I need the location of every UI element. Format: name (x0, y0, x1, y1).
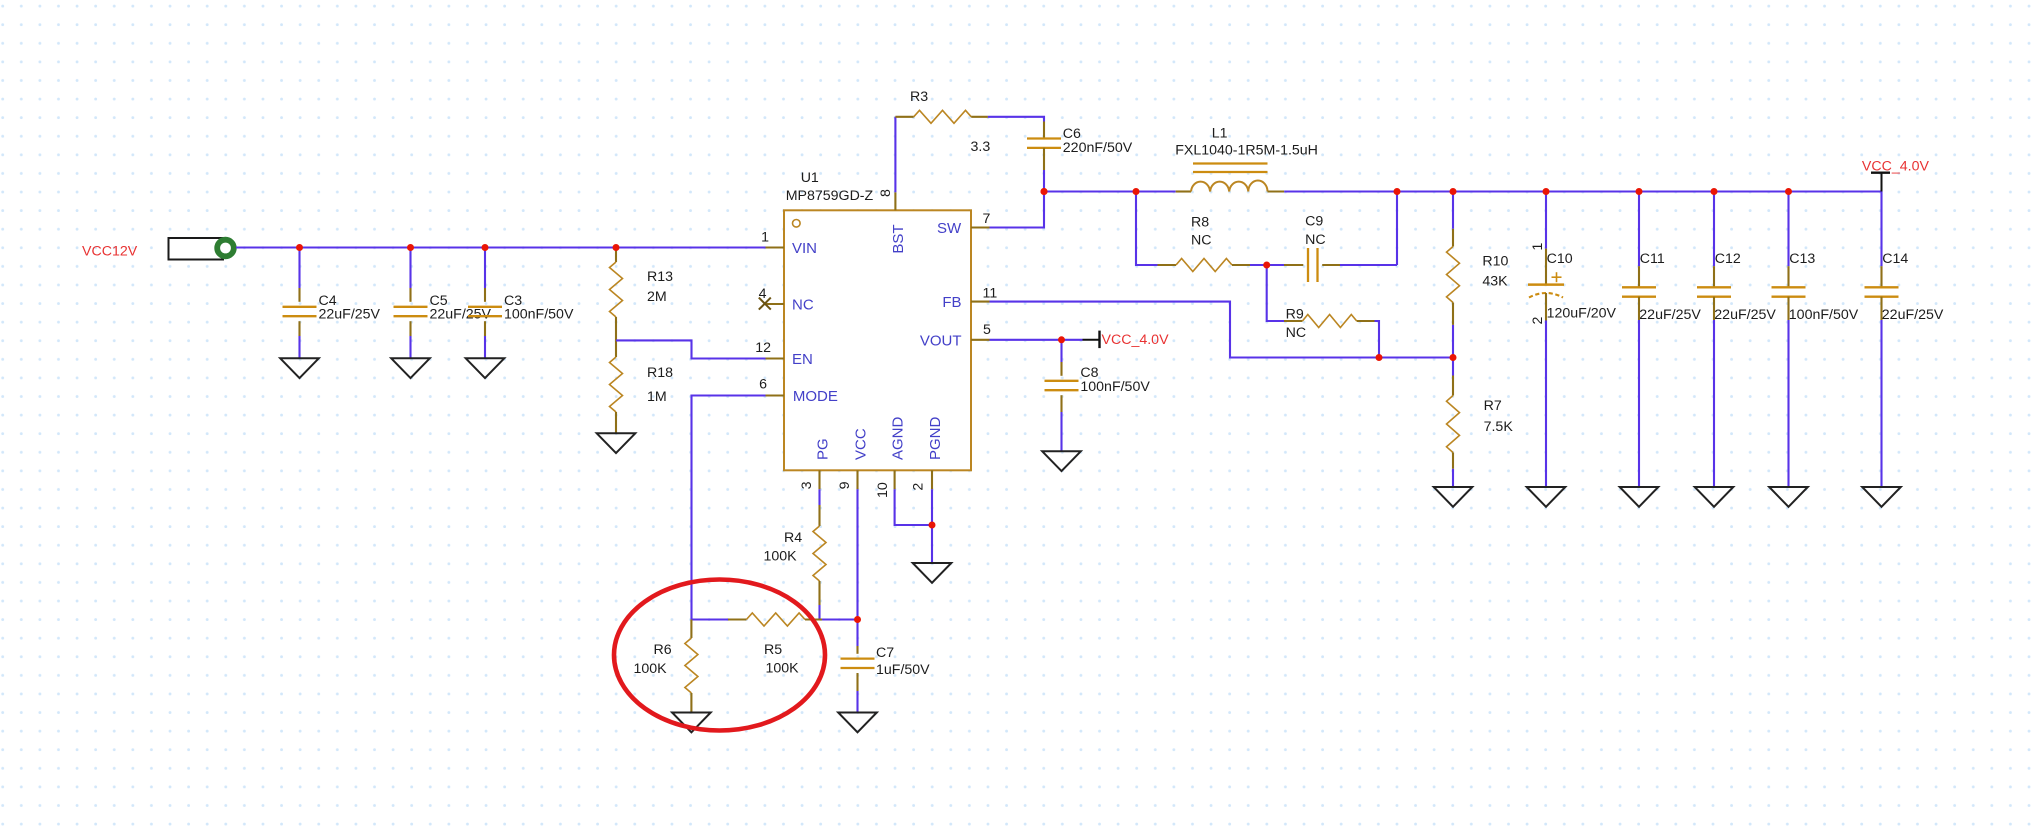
svg-text:2: 2 (1530, 317, 1546, 325)
svg-text:C12: C12 (1715, 251, 1741, 267)
ground under C3 (466, 358, 505, 378)
svg-text:100K: 100K (764, 549, 798, 565)
svg-text:C14: C14 (1882, 251, 1908, 267)
pin 8 BST stub (894, 192, 896, 210)
svg-text:AGND: AGND (889, 416, 906, 460)
svg-text:R4: R4 (784, 530, 802, 546)
wire output rail left of L1 (1044, 190, 1176, 192)
node R9/FB junction (1376, 354, 1383, 361)
pin 3 PG stub (818, 470, 820, 489)
pin 6 MODE stub (766, 394, 785, 396)
ground under C12 (1695, 487, 1734, 507)
pin 9 VCC stub (856, 470, 858, 489)
capacitor C4 22uF/25V (283, 248, 381, 359)
wire VCC pin column (856, 489, 858, 646)
capacitor C12 22uF/25V (1697, 192, 1776, 488)
resistor R13 2M (610, 248, 674, 341)
svg-text:7.5K: 7.5K (1484, 419, 1514, 435)
svg-text:22uF/25V: 22uF/25V (1714, 307, 1776, 323)
svg-text:2: 2 (911, 483, 927, 491)
svg-text:R6: R6 (654, 642, 672, 658)
svg-text:22uF/25V: 22uF/25V (319, 307, 381, 323)
svg-text:EN: EN (792, 351, 813, 368)
svg-text:PG: PG (814, 438, 831, 460)
ground under C7 (838, 713, 877, 733)
svg-text:R8: R8 (1191, 214, 1209, 230)
svg-text:5: 5 (983, 322, 991, 338)
svg-text:VIN: VIN (792, 240, 817, 257)
wire C9 right riser to rail (1396, 192, 1398, 266)
wire VOUT net (990, 339, 1083, 341)
ground under R7 (1434, 487, 1473, 507)
wire EN net (616, 340, 766, 358)
svg-text:3.3: 3.3 (971, 139, 991, 155)
capacitor C8 100nF/50V (1045, 340, 1151, 452)
resistor R9 NC (1267, 265, 1375, 341)
node VOUT/C8 junction (1058, 336, 1065, 343)
svg-text:FB: FB (942, 294, 961, 311)
svg-text:100nF/50V: 100nF/50V (1789, 307, 1859, 323)
svg-text:U1: U1 (801, 170, 819, 186)
svg-text:R5: R5 (764, 642, 782, 658)
svg-text:3: 3 (799, 481, 815, 489)
svg-text:L1: L1 (1212, 126, 1228, 142)
resistor R3 3.3 (895, 89, 990, 155)
svg-text:MP8759GD-Z: MP8759GD-Z (786, 188, 874, 204)
svg-text:10: 10 (875, 482, 891, 498)
svg-text:NC: NC (792, 297, 814, 314)
svg-text:NC: NC (1305, 232, 1326, 248)
wire AGND to PGND (895, 489, 932, 525)
wire R4 to bottom node (818, 605, 820, 620)
svg-text:NC: NC (1191, 233, 1212, 249)
ground under C5 (391, 358, 430, 378)
node AGND/PGND junction (929, 522, 936, 529)
svg-text:VCC: VCC (852, 428, 869, 460)
svg-text:22uF/25V: 22uF/25V (1882, 307, 1944, 323)
svg-text:100nF/50V: 100nF/50V (1080, 379, 1150, 395)
node C6/SW junction (1041, 188, 1048, 195)
svg-text:220nF/50V: 220nF/50V (1063, 140, 1133, 156)
svg-text:SW: SW (937, 220, 962, 237)
power port VCC_4.0V at VOUT (1083, 331, 1170, 349)
svg-text:2M: 2M (647, 289, 667, 305)
ground under R6 (672, 713, 711, 733)
svg-text:1M: 1M (647, 389, 667, 405)
wire BST riser (894, 117, 896, 193)
svg-text:R3: R3 (910, 89, 928, 105)
svg-text:9: 9 (837, 481, 853, 489)
capacitor C7 1uF/50V (841, 645, 931, 713)
node R5/R4/C7 junction (854, 616, 861, 623)
ground under C4 (280, 358, 319, 378)
wire R5 to VCC node (822, 618, 858, 620)
svg-text:100K: 100K (634, 661, 668, 677)
pin 1 VIN stub (766, 246, 785, 248)
svg-text:11: 11 (983, 286, 998, 302)
net label VCC12V connector (82, 238, 234, 260)
capacitor C10 120uF/20V polarized (1528, 192, 1617, 488)
pin 2 PGND stub (931, 470, 933, 489)
resistor R10 43K (1447, 192, 1509, 358)
svg-text:NC: NC (1286, 325, 1307, 341)
svg-text:VCC_4.0V: VCC_4.0V (1102, 332, 1170, 348)
svg-text:VCC_4.0V: VCC_4.0V (1862, 159, 1930, 175)
pin 4 NC stub with no-connect X (766, 303, 785, 305)
svg-text:C7: C7 (876, 645, 894, 661)
pin 5 VOUT stub (971, 339, 990, 341)
capacitor C14 22uF/25V (1865, 192, 1944, 488)
svg-text:C10: C10 (1547, 251, 1573, 267)
junction dots VCC12V rail (296, 244, 620, 251)
wire bottom node horizontal (692, 618, 729, 620)
wire R8 branch left riser (1136, 192, 1158, 266)
svg-text:FXL1040-1R5M-1.5uH: FXL1040-1R5M-1.5uH (1175, 143, 1318, 159)
wire MODE net (692, 396, 766, 620)
resistor R6 100K (634, 620, 698, 713)
pin 11 FB stub (971, 301, 990, 303)
wire R9 to FB node (1375, 321, 1380, 358)
node R10/R7 junction (1450, 354, 1457, 361)
svg-text:120uF/20V: 120uF/20V (1547, 306, 1617, 322)
svg-text:7: 7 (983, 211, 991, 227)
resistor R5 100K (728, 613, 822, 677)
svg-text:R9: R9 (1286, 307, 1304, 323)
svg-text:C11: C11 (1640, 251, 1665, 267)
capacitor C6 220nF/50V (1027, 122, 1133, 192)
svg-text:1: 1 (761, 230, 769, 246)
ground under C13 (1769, 487, 1808, 507)
resistor R18 1M (610, 340, 674, 433)
pin 7 SW stub (971, 226, 990, 228)
red highlight ellipse around R6 R5 (614, 580, 825, 731)
op-amp U1 MP8759GD-Z converter IC (755, 170, 997, 498)
svg-text:C13: C13 (1789, 251, 1815, 267)
svg-text:1: 1 (1530, 243, 1546, 251)
svg-text:VCC12V: VCC12V (82, 244, 138, 260)
svg-text:VOUT: VOUT (920, 332, 962, 349)
svg-text:R7: R7 (1484, 398, 1502, 414)
ground under C11 (1620, 487, 1659, 507)
wire PG pin drop (818, 489, 820, 505)
capacitor C13 100nF/50V (1772, 192, 1859, 488)
inductor L1 FXL1040-1R5M-1.5uH (1175, 126, 1318, 192)
svg-text:BST: BST (890, 224, 907, 253)
svg-text:12: 12 (755, 340, 771, 356)
svg-text:C9: C9 (1305, 214, 1323, 230)
svg-text:22uF/25V: 22uF/25V (1639, 307, 1701, 323)
ground under C8 (1042, 451, 1081, 471)
svg-text:PGND: PGND (927, 416, 944, 460)
pin 12 EN stub (766, 357, 785, 359)
wire PGND drop (931, 489, 933, 563)
wire output rail right of L1 to VCC_4.0V port (1284, 190, 1881, 192)
wire R3 to C6 (988, 117, 1044, 122)
capacitor C9 NC (1267, 214, 1397, 283)
capacitor C3 100nF/50V (468, 248, 574, 359)
wire FB net (990, 302, 1454, 358)
junction dots output rail (1041, 188, 1793, 195)
pin 10 AGND stub (894, 470, 896, 489)
ground under C10 (1527, 487, 1566, 507)
svg-text:6: 6 (759, 377, 767, 393)
ground under R18 (597, 433, 636, 453)
wire VCC12V rail (236, 246, 766, 248)
resistor R7 7.5K (1447, 358, 1514, 488)
svg-text:R13: R13 (647, 269, 673, 285)
ground under PGND (913, 563, 952, 583)
svg-text:100K: 100K (766, 661, 800, 677)
resistor R4 100K (764, 505, 827, 605)
capacitor C5 22uF/25V (394, 248, 492, 359)
svg-text:100nF/50V: 100nF/50V (504, 307, 574, 323)
svg-text:1uF/50V: 1uF/50V (876, 662, 930, 678)
svg-text:R10: R10 (1482, 254, 1508, 270)
svg-text:22uF/25V: 22uF/25V (430, 307, 492, 323)
svg-text:MODE: MODE (793, 388, 838, 405)
svg-text:8: 8 (878, 189, 894, 197)
capacitor C11 22uF/25V (1622, 192, 1701, 488)
resistor R8 NC (1158, 214, 1251, 271)
power port VCC_4.0V top right (1862, 159, 1930, 192)
node R8/C9/R9 junction (1263, 262, 1270, 269)
svg-text:43K: 43K (1482, 274, 1508, 290)
wire SW pin to rail (990, 192, 1045, 228)
wire R8 to node (1250, 264, 1267, 266)
ground under C14 (1862, 487, 1901, 507)
svg-text:R18: R18 (647, 365, 673, 381)
